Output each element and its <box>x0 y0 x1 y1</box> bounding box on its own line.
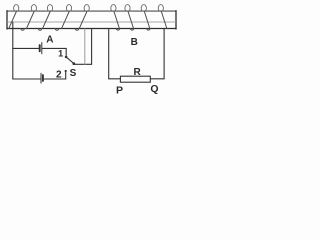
iron core bar top edge <box>7 10 176 12</box>
wire: pole riser to coil <box>91 29 93 65</box>
svg-text:R: R <box>133 67 141 78</box>
core inner light line <box>8 21 176 23</box>
battery cell upper: long thin plate <box>41 43 43 54</box>
wire: upper branch right segment to contact 1 <box>42 48 66 55</box>
battery cell lower: short thick plate <box>42 75 44 81</box>
switch S arm <box>66 57 74 64</box>
wire: switch pole horizontal <box>74 63 92 65</box>
iron core bar right edge <box>175 11 177 29</box>
contact 2 tick <box>65 72 67 80</box>
coil B bottom dip 1 <box>116 29 119 31</box>
contact 1 dot <box>65 56 68 59</box>
resistor R box <box>120 76 150 82</box>
iron core bar bottom edge / winding bottom line <box>7 28 176 30</box>
coil B bottom dip 3 <box>147 29 150 31</box>
coil A turn 4 <box>62 5 72 29</box>
wire: lower branch right segment to contact 2 <box>44 78 66 80</box>
coil B turn 1 <box>111 5 120 29</box>
wire: coil A left lead / left rail <box>12 22 14 79</box>
svg-text:2: 2 <box>56 69 62 80</box>
battery cell lower: long thin plate <box>40 73 42 83</box>
svg-text:Q: Q <box>150 83 158 95</box>
coil A turn 2 <box>27 5 37 29</box>
coil A bottom dip 0 <box>21 29 25 31</box>
wire: R loop right riser <box>163 29 165 79</box>
coil A turn 5 <box>79 5 89 29</box>
svg-text:A: A <box>46 35 53 46</box>
switch pivot dot <box>72 62 75 65</box>
coil A bottom dip 1 <box>38 29 42 31</box>
battery cell upper: short thick plate <box>39 45 41 51</box>
coil B turn 3 <box>141 5 150 29</box>
contact 2 dot <box>65 70 67 72</box>
wire: lower branch left segment <box>13 78 40 80</box>
coil B turn 4 <box>158 5 167 29</box>
coil A bottom dip 2 <box>55 29 59 31</box>
wire: R to right riser <box>150 78 164 80</box>
coil A turn 1 <box>9 5 19 29</box>
wire: coil A right lead (light) <box>84 29 86 65</box>
coil B bottom dip 2 <box>130 29 133 31</box>
svg-text:P: P <box>116 85 123 97</box>
coil A turn 3 <box>43 5 53 29</box>
svg-text:1: 1 <box>58 49 63 59</box>
coil A bottom dip 3 <box>75 29 79 31</box>
wire: upper branch left segment <box>13 47 39 49</box>
iron core bar left edge <box>6 11 8 29</box>
wire: R loop left riser <box>109 29 121 79</box>
coil B turn 2 <box>125 5 134 29</box>
svg-text:B: B <box>131 37 138 48</box>
svg-text:S: S <box>70 68 77 79</box>
